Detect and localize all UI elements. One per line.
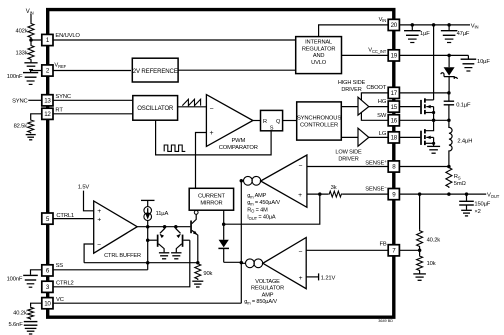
svg-text:SS: SS xyxy=(56,263,64,269)
resistor RS 5mohm xyxy=(446,167,467,189)
op-amp PWM comparator xyxy=(206,95,257,151)
wire 402k to junction and pin 1 xyxy=(31,39,42,45)
svg-text:SYNCHRONOUS: SYNCHRONOUS xyxy=(297,115,341,121)
wire LG pin18 to M2 gate xyxy=(399,136,420,138)
svg-text:133k: 133k xyxy=(16,51,28,57)
pin 2 VREF xyxy=(42,65,53,76)
junction 1uF tap xyxy=(411,23,415,27)
pin 1 EN/UVLO xyxy=(42,34,53,45)
ground (Q1 collector) xyxy=(159,253,169,259)
label gm AMP parameters xyxy=(247,193,280,221)
wire current mirror to offset node xyxy=(223,210,225,224)
junction Q2 emitter xyxy=(174,225,178,229)
svg-text:3649 BD: 3649 BD xyxy=(378,319,393,323)
wire diode to VC riser xyxy=(224,261,242,263)
svg-text:90k: 90k xyxy=(203,271,212,277)
svg-text:LOW SIDE: LOW SIDE xyxy=(335,150,362,156)
svg-text:1.5V: 1.5V xyxy=(78,184,90,190)
svg-text:82.5k: 82.5k xyxy=(14,124,28,130)
IC outer boundary box (thick chip outline) xyxy=(48,10,394,318)
svg-text:UVLO: UVLO xyxy=(311,60,327,66)
svg-text:VREF: VREF xyxy=(54,63,66,69)
wire gm amp output to VC riser xyxy=(241,180,243,182)
label VREF xyxy=(54,63,66,69)
wire gm amp plus to 3k xyxy=(307,193,328,195)
label VC xyxy=(56,297,64,303)
wire SYNC label to pin 13 xyxy=(28,99,42,101)
label HG (pin 15) xyxy=(378,99,387,105)
wire SW pin16 to high side driver xyxy=(361,113,388,121)
svg-text:AND: AND xyxy=(313,53,325,59)
sawtooth waveform symbol xyxy=(182,99,200,105)
svg-text:40.2k: 40.2k xyxy=(13,311,27,317)
label SS xyxy=(56,263,64,269)
wire RT pin12 to oscillator xyxy=(53,113,133,115)
wire ctrl buffer feedback xyxy=(84,244,94,263)
label EN/UVLO xyxy=(55,33,80,39)
wire PWM comparator to latch xyxy=(253,120,261,122)
vreg amp output current source symbol xyxy=(246,259,263,268)
junction M1 source SW xyxy=(432,119,436,123)
pin 3 CTRL2 xyxy=(42,281,53,292)
svg-text:3k: 3k xyxy=(331,185,337,191)
ground (RT) xyxy=(26,135,36,140)
svg-text:12: 12 xyxy=(44,111,51,118)
svg-text:SENSE−: SENSE− xyxy=(365,185,387,193)
label VIN (pin 20) xyxy=(379,17,387,23)
wire VCC_INT pin19 to 10uF xyxy=(399,54,468,56)
wire oscillator to PWM comparator minus xyxy=(178,106,207,108)
label VCC_INT (pin 19) xyxy=(368,48,387,54)
svg-text:13: 13 xyxy=(44,98,51,105)
transistor Q1 (left follower) xyxy=(157,227,165,253)
pin 9 SENSE- xyxy=(388,189,399,200)
capacitor 47uF xyxy=(441,25,470,43)
junction buffer output xyxy=(146,225,150,229)
svg-text:R: R xyxy=(263,119,267,125)
svg-text:20: 20 xyxy=(391,22,398,29)
svg-text:RO = 4M: RO = 4M xyxy=(247,207,268,213)
svg-text:CONTROLLER: CONTROLLER xyxy=(300,122,338,128)
svg-text:18: 18 xyxy=(391,135,398,142)
svg-text:+: + xyxy=(210,130,214,137)
svg-text:100nF: 100nF xyxy=(7,74,23,80)
block SYNCHRONOUS CONTROLLER xyxy=(297,102,342,140)
junction VC riser diode join xyxy=(240,261,244,265)
node VOUT xyxy=(487,193,500,199)
junction boost diode tap xyxy=(447,54,451,58)
node 1.5V clamp xyxy=(78,184,90,190)
wire EN/UVLO pin1 to internal regulator xyxy=(53,39,296,41)
wire CBOOT pin17 to 0.1uF xyxy=(399,92,449,94)
label CTRL2 xyxy=(56,281,74,287)
square waveform symbol xyxy=(164,145,185,151)
wire Q2 base to CTRL2 riser xyxy=(183,239,189,241)
wire SENSE- pin9 to VOUT xyxy=(399,193,486,195)
inductor 2.4uH xyxy=(449,120,472,166)
svg-text:DRIVER: DRIVER xyxy=(338,156,358,162)
svg-text:+: + xyxy=(97,208,101,215)
capacitor 150uF x2 xyxy=(459,194,491,216)
wire 133k to ground xyxy=(30,61,32,63)
wire low side driver to LG pin 18 xyxy=(369,136,388,138)
wire SS pin6 line xyxy=(53,269,148,271)
svg-text:VIN: VIN xyxy=(26,9,34,15)
svg-text:VC: VC xyxy=(56,297,64,303)
junction 47uF tap xyxy=(447,23,451,27)
label CTRL1 xyxy=(56,213,74,219)
svg-text:1µF: 1µF xyxy=(420,31,430,37)
wire SENSE+ pin8 to gm amp minus xyxy=(307,166,388,168)
wire internal regulator to VCC_INT pin 19 xyxy=(342,54,389,56)
wire M1 drain to VIN xyxy=(433,25,435,100)
junction Q3 emitter to wire A xyxy=(196,261,200,265)
svg-text:RS: RS xyxy=(454,174,461,180)
junction EN divider xyxy=(29,38,33,42)
svg-text:FB: FB xyxy=(379,241,386,247)
wire oscillator to latch S input xyxy=(156,120,272,155)
wire 40.2k to 10k xyxy=(419,248,421,256)
ground (M2 source) xyxy=(427,146,440,153)
block OSCILLATOR xyxy=(133,96,178,121)
wire high side driver to HG pin 15 xyxy=(369,106,388,108)
ground (90k) xyxy=(192,281,203,287)
wire 3k to SENSE- pin9 xyxy=(342,193,388,195)
resistor 3k xyxy=(328,185,342,197)
svg-text:19: 19 xyxy=(391,53,398,60)
op-amp gm AMP (sense amplifier) xyxy=(261,155,307,207)
svg-text:+: + xyxy=(97,217,101,224)
label FB (pin) xyxy=(379,241,386,247)
buffer low side driver xyxy=(358,128,369,146)
wire SS pin6 to 100nF xyxy=(31,270,42,275)
junction FB divider xyxy=(418,249,422,253)
wire VC pin10 to compensation xyxy=(31,303,42,306)
svg-text:VIN: VIN xyxy=(379,17,387,23)
resistor 82.5k xyxy=(14,119,34,134)
pin 16 SW xyxy=(388,115,399,126)
svg-text:−: − xyxy=(299,163,303,170)
svg-text:INTERNAL: INTERNAL xyxy=(305,40,332,46)
svg-text:47µF: 47µF xyxy=(457,31,470,37)
label VOLTAGE REGULATOR AMP xyxy=(244,279,284,306)
capacitor 100nF (VREF) xyxy=(7,73,38,85)
pin 12 RT xyxy=(42,108,53,119)
transistor Q3 (mirror driver NPN) xyxy=(190,214,198,262)
pin 19 VCC_INT xyxy=(388,50,399,61)
svg-text:CURRENT: CURRENT xyxy=(198,193,225,199)
svg-text:2.4µH: 2.4µH xyxy=(457,139,472,145)
svg-text:2V REFERENCE: 2V REFERENCE xyxy=(133,68,178,75)
svg-text:MIRROR: MIRROR xyxy=(200,201,222,207)
svg-text:5mΩ: 5mΩ xyxy=(454,181,467,187)
junction divider tap top xyxy=(418,192,422,196)
svg-text:SYNC: SYNC xyxy=(12,99,28,105)
junction gm amp output xyxy=(240,179,244,183)
svg-text:gm = 450µA/V: gm = 450µA/V xyxy=(247,200,280,206)
node SYNC external label xyxy=(12,99,28,105)
svg-text:0.1µF: 0.1µF xyxy=(456,103,471,109)
svg-text:VIN: VIN xyxy=(471,23,479,29)
svg-text:DRIVER: DRIVER xyxy=(341,87,361,93)
svg-text:10k: 10k xyxy=(427,261,436,267)
svg-text:+: + xyxy=(299,275,303,282)
ground (EN divider) xyxy=(24,63,37,70)
junction bases tap xyxy=(146,238,150,242)
wire VREF pin2 to 100nF xyxy=(31,71,42,73)
svg-text:gm AMP: gm AMP xyxy=(247,193,266,199)
latch RS flip-flop xyxy=(261,110,283,131)
wire SYNC pin13 to oscillator xyxy=(53,99,133,101)
wire buffer feedback bus (wire A) xyxy=(84,262,198,264)
svg-text:402k: 402k xyxy=(16,29,28,35)
wire VIN pin20 to bypass caps xyxy=(399,24,470,26)
wire vreg amp output to VC riser xyxy=(241,262,245,264)
svg-text:CBOOT: CBOOT xyxy=(366,85,386,91)
wire VC to PWM comparator plus xyxy=(196,133,207,189)
svg-text:CTRL2: CTRL2 xyxy=(56,281,74,287)
wire VIN to 402k xyxy=(30,14,32,22)
svg-text:IOUT = 40µA: IOUT = 40µA xyxy=(247,215,276,221)
pin 13 SYNC xyxy=(42,95,53,106)
wire VC riser (gm amp and mirror to VC pin) xyxy=(53,181,241,303)
svg-text:REGULATOR: REGULATOR xyxy=(302,46,336,52)
wire controller to low side driver xyxy=(341,136,358,138)
wire ctrl buffer output xyxy=(137,226,190,228)
resistor 133k xyxy=(16,45,34,61)
gm amp output current source symbol xyxy=(244,176,261,185)
junction Q1 emitter xyxy=(163,225,167,229)
label HIGH SIDE DRIVER xyxy=(338,80,366,93)
svg-text:+: + xyxy=(298,192,302,199)
resistor 402k xyxy=(16,23,34,39)
label CBOOT (pin 17) xyxy=(366,85,386,91)
wire bases line left xyxy=(148,239,157,241)
wire RT pin12 to 82.5k xyxy=(31,114,42,119)
junction output cap tap xyxy=(465,192,469,196)
capacitor 10uF xyxy=(461,55,491,71)
label LG (pin 18) xyxy=(379,131,387,137)
pin 10 VC xyxy=(42,298,53,309)
ground (VC comp) xyxy=(25,328,37,334)
svg-text:gm = 850µA/V: gm = 850µA/V xyxy=(244,299,277,305)
wire 10k to ground xyxy=(419,272,421,274)
svg-text:16: 16 xyxy=(391,118,398,125)
resistor 40.2k (VC comp) xyxy=(13,306,33,320)
svg-text:REGULATOR: REGULATOR xyxy=(251,286,284,292)
svg-text:40.2k: 40.2k xyxy=(427,237,441,243)
wire CTRL2 pin3 riser xyxy=(53,240,190,287)
block 2V REFERENCE xyxy=(132,58,178,82)
svg-text:−: − xyxy=(210,106,214,113)
current source 11uA xyxy=(141,200,169,220)
wire latch Q to synchronous controller xyxy=(283,120,297,122)
pin 17 CBOOT xyxy=(388,87,399,98)
wire offset node to sense plus node xyxy=(224,194,320,224)
svg-text:HIGH SIDE: HIGH SIDE xyxy=(338,80,366,86)
pin 7 FB xyxy=(388,245,399,256)
svg-text:17: 17 xyxy=(391,90,398,97)
wire SW pin16 to inductor xyxy=(399,119,449,121)
svg-text:1.21V: 1.21V xyxy=(321,275,336,281)
svg-text:CTRL BUFFER: CTRL BUFFER xyxy=(104,253,141,259)
pin 20 VIN xyxy=(388,19,399,30)
label SW (pin 16) xyxy=(377,113,387,119)
label RT (pin) xyxy=(55,108,63,114)
svg-text:10µF: 10µF xyxy=(477,59,490,65)
capacitor 1uF xyxy=(404,25,430,43)
diode D1 (mirror to VC) xyxy=(218,224,229,262)
svg-text:11µA: 11µA xyxy=(156,211,169,217)
svg-text:5.6nF: 5.6nF xyxy=(9,322,24,328)
svg-text:HG: HG xyxy=(378,99,387,105)
transistor M1 (high side NMOS) xyxy=(421,98,435,120)
svg-text:100nF: 100nF xyxy=(7,277,23,283)
svg-text:VOUT: VOUT xyxy=(487,193,500,199)
junction CBOOT net xyxy=(447,91,451,95)
diode D2 (boost schottky) xyxy=(441,55,457,93)
svg-text:150µF: 150µF xyxy=(474,202,490,208)
wire FB pin7 to divider xyxy=(399,249,419,251)
svg-text:S: S xyxy=(270,125,274,131)
wire 11uA source down to output node and SS xyxy=(147,221,149,270)
junction HS drain riser tap xyxy=(432,23,436,27)
junction RS bottom xyxy=(447,192,451,196)
reference 1.21V xyxy=(306,273,335,281)
svg-text:VOLTAGE: VOLTAGE xyxy=(255,279,280,285)
svg-text:VCC_INT: VCC_INT xyxy=(368,48,387,54)
svg-text:OSCILLATOR: OSCILLATOR xyxy=(137,106,174,112)
svg-text:RT: RT xyxy=(55,108,63,114)
op-amp CTRL BUFFER xyxy=(94,201,141,259)
junction sense minus internal xyxy=(318,192,322,196)
resistor 10k (divider) xyxy=(417,255,436,272)
op-amp VOLTAGE REGULATOR AMP xyxy=(263,238,306,289)
label SENSE+ (pin) xyxy=(365,159,387,167)
svg-text:−: − xyxy=(97,241,101,248)
junction inductor bottom xyxy=(447,165,451,169)
pin 8 SENSE+ xyxy=(388,161,399,172)
node VIN (top-left supply label) xyxy=(26,9,34,15)
buffer high side driver xyxy=(358,97,369,115)
svg-text:10: 10 xyxy=(44,300,51,307)
ground (Q2 collector) xyxy=(171,253,181,259)
svg-text:SENSE+: SENSE+ xyxy=(365,159,387,167)
capacitor 5.6nF (VC comp) xyxy=(9,322,38,328)
junction mirror offset node xyxy=(222,222,226,226)
wire FB pin7 to vreg amp minus xyxy=(306,249,388,251)
junction SW net inductor top xyxy=(447,119,451,123)
svg-text:COMPARATOR: COMPARATOR xyxy=(219,145,258,151)
wire controller to high side driver xyxy=(341,106,358,108)
junction wireA crossing xyxy=(146,261,150,265)
wire VREF pin2 to 2V reference xyxy=(53,70,131,72)
transistor Q2 (right follower) xyxy=(176,227,184,253)
resistor 90k xyxy=(195,263,213,280)
svg-text:SYNC: SYNC xyxy=(55,94,71,100)
svg-text:SW: SW xyxy=(377,113,387,119)
wire CBOOT pin17 to high side driver xyxy=(361,93,388,100)
wire CTRL1 pin5 to ctrl buffer xyxy=(53,218,94,220)
capacitor 0.1uF xyxy=(444,93,471,120)
transistor M2 (low side NMOS) xyxy=(421,120,435,146)
ground (divider) xyxy=(413,274,426,280)
node VIN (right) xyxy=(471,23,479,29)
svg-text:×2: ×2 xyxy=(474,209,480,215)
svg-text:LG: LG xyxy=(379,131,387,137)
label SENSE- (pin) xyxy=(365,185,387,193)
wire 1.5V to ctrl buffer xyxy=(84,191,94,211)
label LOW SIDE DRIVER xyxy=(335,150,362,163)
wire divider riser xyxy=(419,194,421,230)
wire internal regulator to VIN pin 20 xyxy=(319,25,389,37)
svg-text:EN/UVLO: EN/UVLO xyxy=(55,33,80,39)
svg-text:AMP: AMP xyxy=(262,292,274,298)
wire HG pin15 to M1 gate xyxy=(399,106,420,108)
label part number code xyxy=(378,319,393,323)
svg-text:−: − xyxy=(299,249,303,256)
pin 15 HG xyxy=(388,101,399,112)
pin 6 SS xyxy=(42,265,53,276)
label SYNC (pin) xyxy=(55,94,71,100)
resistor 40.2k (divider) xyxy=(417,230,441,248)
block INTERNAL REGULATOR AND UVLO xyxy=(296,37,342,74)
pin 18 LG xyxy=(388,132,399,143)
capacitor 100nF (SS) xyxy=(7,275,38,287)
pin 5 CTRL1 xyxy=(42,213,53,224)
current mirror output circle xyxy=(194,211,198,215)
svg-text:PWM: PWM xyxy=(231,138,245,144)
wire 2V reference to internal regulator xyxy=(178,69,296,71)
block CURRENT MIRROR xyxy=(189,188,233,210)
svg-text:15: 15 xyxy=(391,104,398,111)
wire SENSE+ pin8 to RS xyxy=(399,166,449,168)
